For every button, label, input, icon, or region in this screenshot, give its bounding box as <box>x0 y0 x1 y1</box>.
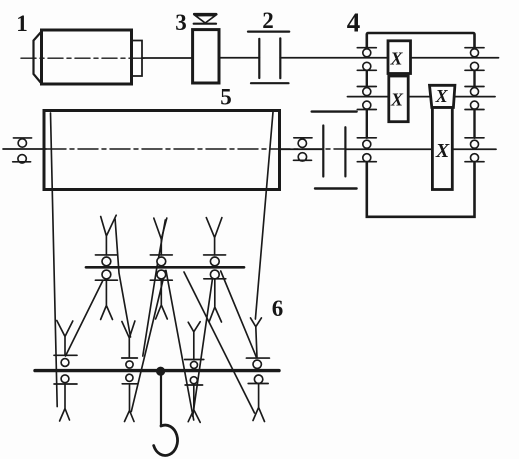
svg-text:2: 2 <box>262 8 274 33</box>
lower pulley Q2 <box>122 321 138 422</box>
coupling C2 top bar <box>248 31 289 33</box>
motor shaft step <box>132 41 143 77</box>
motor body M <box>42 30 132 84</box>
drum coupling left half <box>322 126 324 177</box>
rope C upper2 to lower2 <box>143 220 166 356</box>
coupling C2 bottom bar <box>251 82 289 84</box>
gearbox housing bottom line <box>367 163 475 217</box>
drum 5 body <box>44 111 280 190</box>
svg-text:3: 3 <box>175 10 187 35</box>
rope over drum left <box>51 113 58 407</box>
svg-text:4: 4 <box>347 8 361 38</box>
rope E2 upper2 to lower3 anchor <box>166 271 194 421</box>
hook equalizer dot <box>156 367 165 376</box>
bearing shaft II right <box>465 87 484 110</box>
drum shaft left end <box>3 148 46 150</box>
gear Z3 on intermediate shaft <box>430 85 455 107</box>
gearbox right wall segment b <box>473 110 475 138</box>
rope H upper3 to lower4 <box>221 271 257 358</box>
bearing shaft III left <box>357 138 376 162</box>
bearing shaft I left <box>357 48 376 71</box>
brake triangle <box>195 15 215 23</box>
hook shank <box>160 374 162 426</box>
upper block axle <box>86 266 244 269</box>
svg-text:1: 1 <box>16 11 28 36</box>
gearbox output shaft III <box>346 148 496 150</box>
rope D upper2 to lower2 anchor <box>131 271 165 412</box>
rope F to lower4 anchor <box>184 272 255 413</box>
bearing shaft III right <box>465 138 484 162</box>
brake coupling C3 <box>193 30 219 83</box>
drum bearing right <box>294 138 313 161</box>
hook curve <box>154 425 178 455</box>
motor axis dash-dot line <box>21 57 145 59</box>
motor left end cap <box>34 32 42 84</box>
bearing shaft I right <box>465 48 484 71</box>
gearbox left wall segment a <box>366 70 368 86</box>
brake lower line <box>194 23 216 25</box>
coupling C2 right half <box>279 38 281 78</box>
drum bearing left <box>13 138 32 163</box>
drum coupling top bar <box>312 110 357 112</box>
svg-text:X: X <box>390 89 404 109</box>
lower block axle <box>35 369 279 372</box>
lower pulley Q4 <box>246 318 269 422</box>
drum axis dash-dot <box>46 148 344 150</box>
gearbox left wall segment b <box>366 110 368 138</box>
lower pulley Q1 <box>54 321 77 422</box>
svg-text:5: 5 <box>220 85 232 110</box>
svg-text:X: X <box>435 140 450 162</box>
gear Z4 on output shaft <box>432 108 452 190</box>
rope over drum right <box>255 112 273 319</box>
svg-text:X: X <box>389 49 403 69</box>
rope G upper3 to lower3 anchor <box>193 279 213 416</box>
svg-text:6: 6 <box>272 296 284 321</box>
upper pulley P3 <box>204 218 226 322</box>
drum coupling bottom bar <box>315 187 357 189</box>
gearbox right wall segment a <box>473 70 475 86</box>
gearbox housing top line <box>367 33 475 48</box>
shaft motor to coupling 3 <box>142 57 193 59</box>
svg-text:X: X <box>435 86 449 106</box>
gearbox intermediate shaft II <box>348 96 496 98</box>
brake upper line <box>194 13 216 15</box>
shaft coupling 3 to coupling 2 <box>219 57 259 59</box>
rope A upper1 to lower1 <box>66 281 103 356</box>
gear Z1 on input shaft <box>388 41 411 74</box>
shaft drum to coupling <box>280 148 323 150</box>
upper pulley P1 <box>95 215 117 319</box>
lower pulley Q3 <box>185 322 204 423</box>
drum coupling right half <box>344 127 346 176</box>
gear Z2 on intermediate shaft <box>389 76 408 122</box>
bearing shaft II left <box>357 87 376 110</box>
coupling C2 left half <box>258 39 260 78</box>
rope B upper1 to lower2 <box>115 219 130 337</box>
gearbox input shaft I <box>280 57 498 59</box>
upper pulley P2 <box>150 218 172 319</box>
